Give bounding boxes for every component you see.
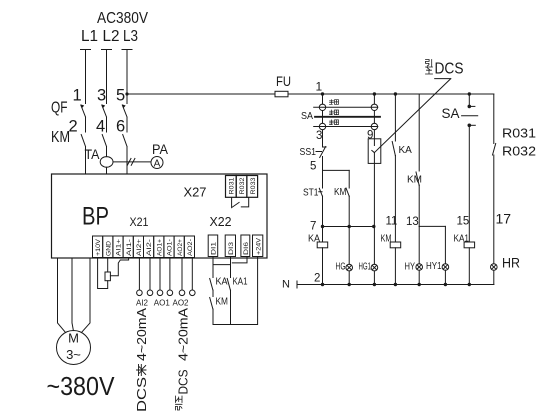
wire HG1 branch xyxy=(373,227,376,265)
wire HG to N xyxy=(348,271,350,285)
wire C2 row2 to node9 xyxy=(373,130,375,146)
wire L2 below TA xyxy=(106,167,108,174)
SA contact circle row2 right xyxy=(371,123,377,129)
svg-text:SA: SA xyxy=(301,110,313,122)
svg-text:KA1: KA1 xyxy=(233,277,248,288)
wire FU to end xyxy=(288,93,494,95)
X21 terminal AI1- xyxy=(123,236,133,258)
wire C1 node3 xyxy=(322,130,324,147)
lamp HG1 xyxy=(371,264,378,271)
svg-text:HR: HR xyxy=(502,256,520,271)
terminal circle AI2- xyxy=(147,290,153,296)
wire AO1+ down xyxy=(159,258,161,291)
svg-text:1: 1 xyxy=(316,80,323,94)
X22 DI3-DI6 jumper xyxy=(231,257,248,263)
svg-text:3~: 3~ xyxy=(66,347,81,362)
motor M xyxy=(57,331,91,365)
wire AO2+ down xyxy=(181,258,183,291)
wire C6 to node17 xyxy=(493,155,495,264)
svg-text:7: 7 xyxy=(310,221,316,233)
wire KM branch lower xyxy=(348,196,350,227)
svg-text:PA: PA xyxy=(152,141,169,157)
N line junction dots xyxy=(321,283,324,286)
svg-text:DI6: DI6 xyxy=(243,241,250,255)
connector break R031 R032 xyxy=(493,144,496,156)
node L3 branch xyxy=(125,92,128,95)
wire C4 to node13 xyxy=(418,185,420,226)
terminal circle AO2+ xyxy=(179,290,185,296)
breaker QF pole 1 xyxy=(81,105,86,117)
DCS remote contact box xyxy=(368,139,381,164)
svg-text:4~20mA: 4~20mA xyxy=(134,308,149,361)
lamp HR xyxy=(491,264,498,271)
X21 terminal AO2- xyxy=(184,236,194,258)
wire C1 node5 to ST1 xyxy=(322,170,324,188)
X21 terminal GND xyxy=(103,236,113,258)
X22 terminal DI1 xyxy=(208,235,218,257)
svg-text:DI3: DI3 xyxy=(228,241,235,255)
motor wire U xyxy=(58,258,66,333)
svg-text:AI1+: AI1+ xyxy=(116,239,123,256)
wire HG1 to N xyxy=(373,271,375,285)
X21 terminal +10V xyxy=(93,236,103,258)
node 1 junction xyxy=(321,92,324,95)
terminal block X27 R031 xyxy=(226,176,237,198)
svg-text:KM: KM xyxy=(407,175,422,186)
X21 terminal AI2- xyxy=(144,236,154,258)
wire KM coil to N xyxy=(394,248,396,285)
SA row2 line xyxy=(314,126,378,128)
wire HY branch xyxy=(418,226,420,263)
fuse FU xyxy=(275,91,288,97)
wire TA to PA xyxy=(113,161,151,163)
lamp HY xyxy=(416,264,423,271)
SA contact circle row2 left xyxy=(319,123,325,129)
svg-text:KM: KM xyxy=(334,187,347,198)
svg-text:R032: R032 xyxy=(239,177,246,194)
ammeter PA xyxy=(151,157,163,169)
breaker QF pole 2 xyxy=(102,105,107,117)
potentiometer xyxy=(105,272,110,281)
svg-text:AO1: AO1 xyxy=(154,299,171,308)
wire AO2- down xyxy=(191,258,193,291)
terminal circle AO1- xyxy=(167,290,173,296)
node C2 junction xyxy=(373,92,376,95)
SA row1 line xyxy=(314,106,378,108)
SA position text 3 xyxy=(330,120,339,125)
node C3 junction xyxy=(394,92,397,95)
relay coil KA1 xyxy=(464,242,475,248)
selector switch SA left : wire from node1 xyxy=(322,94,324,104)
wire KM branch upper xyxy=(348,170,350,188)
X21 terminal AO1- xyxy=(164,236,174,258)
svg-text:AO2: AO2 xyxy=(172,299,189,308)
svg-text:DCS: DCS xyxy=(435,61,464,78)
wire HR to N xyxy=(493,270,495,284)
svg-text:3: 3 xyxy=(316,130,322,142)
svg-text:DCS: DCS xyxy=(134,377,149,412)
svg-text:HY1: HY1 xyxy=(426,261,442,272)
svg-text:2: 2 xyxy=(69,118,78,136)
SA contact circle row1 left xyxy=(319,104,325,110)
wire C2 row1 to row2 xyxy=(373,111,375,124)
svg-text:X21: X21 xyxy=(130,215,149,229)
svg-text:KA: KA xyxy=(399,145,413,156)
svg-text:KA: KA xyxy=(216,277,228,288)
contactor KM pole 3 xyxy=(123,135,127,147)
svg-text:2: 2 xyxy=(314,273,320,285)
contactor KM pole 1 xyxy=(81,135,85,147)
wire C2 box to node7 xyxy=(373,153,375,227)
svg-text:AC380V: AC380V xyxy=(97,10,148,27)
svg-text:+10V: +10V xyxy=(95,238,102,256)
svg-text:DI1: DI1 xyxy=(211,241,218,255)
X21 terminal AI1+ xyxy=(113,236,123,258)
svg-text:KA1: KA1 xyxy=(454,234,470,245)
svg-text:GND: GND xyxy=(105,241,112,256)
svg-text:AI2-: AI2- xyxy=(146,239,153,256)
terminal L2 xyxy=(102,49,112,51)
svg-text:KM: KM xyxy=(216,297,229,308)
svg-text:R033: R033 xyxy=(250,177,257,194)
wire KA1 to common xyxy=(230,290,232,325)
lamp HY1 xyxy=(442,264,449,271)
svg-text:N: N xyxy=(282,279,290,291)
current transformer TA xyxy=(100,157,113,168)
svg-text:A: A xyxy=(154,159,161,170)
neutral line N xyxy=(297,284,494,286)
X27 lead 2 xyxy=(241,198,248,207)
crossing slash xyxy=(127,158,135,165)
node C5 junction xyxy=(468,92,471,95)
X22 DI1-DI3 jumper xyxy=(213,257,231,265)
svg-text:17: 17 xyxy=(496,211,512,227)
wire L3 mid xyxy=(126,117,128,132)
svg-text:BP: BP xyxy=(82,203,109,231)
svg-text:KA: KA xyxy=(308,234,320,245)
wire L3 lower xyxy=(126,147,128,175)
relay coil KM xyxy=(390,242,401,248)
terminal L1 xyxy=(81,49,91,51)
DCS callout leader xyxy=(374,79,450,153)
X21 terminal AO2+ xyxy=(174,236,184,258)
wire L2 mid xyxy=(106,117,108,132)
svg-text:R032: R032 xyxy=(502,144,536,159)
SA selector bar xyxy=(315,116,380,118)
terminal circle AO2- xyxy=(190,290,196,296)
X22 terminal DI3 xyxy=(225,235,235,257)
wire C1 row1 to row2 xyxy=(322,111,324,124)
svg-text:L2: L2 xyxy=(103,28,120,45)
svg-text:AO2+: AO2+ xyxy=(177,239,184,256)
wire AI2+ down xyxy=(138,258,140,291)
svg-text:R031: R031 xyxy=(228,177,235,194)
svg-text:HY: HY xyxy=(405,262,416,273)
svg-text:SA: SA xyxy=(442,106,460,121)
wire C4 from top xyxy=(418,94,420,171)
svg-text:5: 5 xyxy=(310,161,316,173)
wire DI3 branch xyxy=(230,263,232,278)
svg-text:FU: FU xyxy=(276,74,291,89)
svg-text:X27: X27 xyxy=(184,185,207,200)
wire node5 branch xyxy=(323,169,350,171)
wire KA1 coil to N xyxy=(468,248,470,285)
N terminal tick xyxy=(296,281,298,288)
wire C3 from top xyxy=(394,94,396,141)
SA position text 2 xyxy=(330,110,339,115)
wire KA coil to N xyxy=(322,248,324,285)
X22 terminal DI6 xyxy=(241,235,250,257)
svg-text:AI2+: AI2+ xyxy=(136,239,143,256)
SA contact circle row1 right xyxy=(371,104,377,110)
wire C5 to node15 xyxy=(468,127,470,242)
svg-text:5: 5 xyxy=(116,87,125,105)
wire L2 upper xyxy=(106,50,108,104)
svg-text:6: 6 xyxy=(116,118,125,136)
svg-text:~380V: ~380V xyxy=(47,371,116,401)
svg-text:15: 15 xyxy=(457,216,470,228)
breaker QF pole 3 xyxy=(122,105,127,117)
wire C2 node1 to row1 xyxy=(373,94,375,104)
motor wire W xyxy=(81,258,90,333)
X21 terminal AO1+ xyxy=(154,236,164,258)
wire C1 SS1 to node5 xyxy=(322,157,324,171)
X21 terminal AI2+ xyxy=(133,236,143,258)
svg-text:HG: HG xyxy=(336,262,346,273)
svg-text:DCS: DCS xyxy=(176,369,191,394)
wire node7 horizontal xyxy=(323,226,374,228)
inverter BP box xyxy=(52,174,268,258)
wire HY1 branch xyxy=(444,226,446,263)
rotated label to DCS xyxy=(176,396,183,410)
svg-text:L3: L3 xyxy=(123,28,138,45)
terminal circle AI2+ xyxy=(137,290,143,296)
X27 contact lead xyxy=(232,198,240,208)
svg-text:X22: X22 xyxy=(210,214,232,229)
wire AO1- down xyxy=(169,258,171,291)
pot wiring +10V xyxy=(98,258,108,289)
rotated label DCS source xyxy=(134,308,149,412)
SA position text 1 xyxy=(330,100,339,105)
terminal block X27 R032 xyxy=(236,176,247,198)
node7 dots xyxy=(321,225,324,228)
wire C6 down from line end xyxy=(493,94,495,144)
svg-text:13: 13 xyxy=(406,216,419,228)
wire L1 lower xyxy=(85,147,87,175)
X22 terminal +24V xyxy=(253,235,263,257)
wire C3 to coil xyxy=(394,156,396,243)
svg-text:QF: QF xyxy=(51,100,68,117)
pot wiper wiring xyxy=(110,258,128,276)
svg-text:TA: TA xyxy=(85,146,101,162)
terminal L3 xyxy=(122,49,132,51)
svg-text:AO1-: AO1- xyxy=(167,239,174,256)
wire C1 ST1 to node7 xyxy=(322,196,324,227)
wire L2 lower to TA xyxy=(106,147,108,157)
wire AI2- down xyxy=(149,258,151,291)
svg-text:3: 3 xyxy=(97,87,106,105)
svg-text:R031: R031 xyxy=(502,126,536,141)
svg-text:AI1-: AI1- xyxy=(126,239,133,256)
svg-text:AO2-: AO2- xyxy=(187,239,194,256)
wire HG branch xyxy=(348,227,350,265)
wire L1 upper xyxy=(85,50,87,104)
label DCS callout xyxy=(426,60,432,67)
wire between KA and KM xyxy=(212,290,214,297)
wire KM to common xyxy=(212,309,214,325)
common wire to +24V xyxy=(213,257,258,325)
svg-text:AO1+: AO1+ xyxy=(156,239,163,256)
wire L1 mid xyxy=(85,117,87,132)
relay coil KA xyxy=(317,242,328,248)
pot top to GND xyxy=(107,258,109,273)
svg-text:4~20mA: 4~20mA xyxy=(176,308,191,361)
wire DI1 branch xyxy=(212,265,214,278)
svg-text:HG1: HG1 xyxy=(359,262,372,273)
wire main horizontal to FU xyxy=(127,93,275,95)
wire HY to N xyxy=(418,270,420,284)
wire node13 horizontal xyxy=(419,225,445,227)
svg-text:L1: L1 xyxy=(81,28,98,45)
svg-text:SS1: SS1 xyxy=(300,147,317,158)
svg-text:KM: KM xyxy=(51,129,70,146)
terminal block X27 R033 xyxy=(247,176,258,198)
svg-text:11: 11 xyxy=(386,216,398,228)
switch SA right xyxy=(468,94,470,105)
svg-text:ST1: ST1 xyxy=(303,188,319,199)
svg-text:1: 1 xyxy=(73,87,82,105)
wire HY1 to N xyxy=(444,270,446,284)
wire L3 upper xyxy=(126,50,128,104)
svg-text:4: 4 xyxy=(96,118,105,136)
svg-text:AI2: AI2 xyxy=(136,299,149,308)
lamp HG xyxy=(346,264,353,271)
svg-text:M: M xyxy=(68,331,79,346)
motor wire V xyxy=(72,258,73,331)
contactor KM pole 2 xyxy=(102,135,106,147)
wire C1 node7 to coil xyxy=(322,227,324,243)
svg-text:+24V: +24V xyxy=(255,237,262,255)
terminal circle AO1+ xyxy=(157,290,163,296)
